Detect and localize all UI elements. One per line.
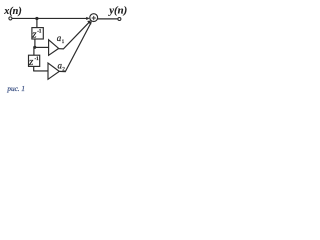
amplifier a2 triangle: [48, 63, 59, 79]
svg-text:y(n): y(n): [107, 5, 127, 17]
svg-text:2: 2: [62, 66, 65, 72]
wire Z2 output to amplifier a2 input: [33, 70, 48, 72]
arrowhead into summer (horizontal): [86, 17, 90, 20]
wire summer to y(n): [98, 18, 119, 20]
wire Z1 output down to tap junction: [34, 39, 36, 48]
wire a2 output stub and diagonal to summer: [59, 24, 90, 72]
svg-text:z: z: [28, 56, 34, 68]
svg-text:x(n): x(n): [3, 6, 22, 17]
wire tap junction down into Z2: [33, 47, 35, 55]
wire vertical from junction into Z1: [36, 19, 38, 28]
junction dot tap: [33, 46, 36, 49]
svg-text:-1: -1: [37, 30, 42, 35]
svg-text:рис. 1: рис. 1: [6, 85, 25, 93]
wire tap to amplifier a1 input: [34, 46, 48, 48]
wire a1 output stub and diagonal to summer: [59, 22, 90, 49]
wire Z2 output down: [33, 66, 35, 71]
svg-text:-1: -1: [35, 57, 40, 62]
node x(n) input terminal: [9, 17, 12, 20]
node y(n) output terminal: [118, 18, 121, 21]
svg-text:1: 1: [62, 39, 65, 45]
delay box Z2: [29, 55, 40, 66]
junction dot on main wire: [35, 17, 38, 20]
arrowhead a2 line into summer: [89, 21, 92, 25]
amplifier a1 triangle: [49, 40, 59, 56]
summing node circle with plus: [90, 14, 98, 22]
delay box Z1: [32, 28, 43, 39]
arrowhead a1 line into summer: [87, 20, 91, 23]
wire main horizontal x(n) to summer: [12, 17, 87, 19]
